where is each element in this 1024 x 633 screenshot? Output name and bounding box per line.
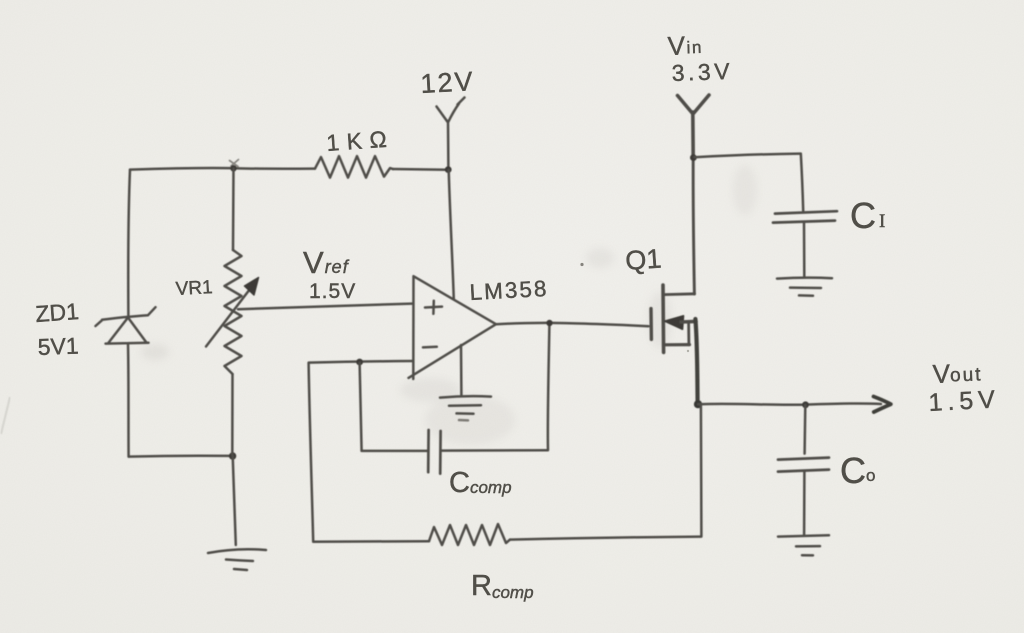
wire: VR1 top lead — [232, 169, 235, 251]
capacitor Co — [778, 458, 829, 472]
wire: top rail from left corner to resistor R1 — [130, 168, 315, 170]
wire: VR1 node down to ground — [233, 456, 236, 545]
op-amp U1 (LM358) — [409, 276, 497, 379]
wire: Rcomp left segment — [313, 540, 429, 543]
wire: op-amp output to MOSFET gate — [496, 323, 649, 326]
wire: Co top lead — [803, 405, 806, 454]
junction dot: feedback node — [356, 359, 363, 366]
ground: below VR1 — [208, 549, 266, 570]
zener diode ZD1 — [96, 307, 156, 343]
power symbol Vin — [678, 95, 710, 157]
wire: Co bottom lead — [803, 472, 806, 535]
op-amp - input symbol — [423, 345, 437, 348]
arrowhead: Vout — [874, 397, 891, 413]
junction dot: Vout node — [694, 400, 702, 408]
wiper arrow of VR1 — [206, 289, 250, 347]
wire: CI top lead — [801, 154, 803, 211]
pencil smudge at left edge — [1, 397, 10, 434]
junction dot: op-amp output node — [546, 320, 552, 326]
op-amp + input symbol — [425, 301, 442, 314]
ground: below CI — [777, 278, 832, 296]
wire: VR1 bottom lead — [231, 374, 234, 455]
wire: left vertical from top rail to zener cathode — [128, 170, 130, 318]
wire: 12V node down to op-amp V+ — [449, 170, 454, 300]
wire: feedback left vertical — [309, 363, 314, 542]
pencil tick marks at top-rail junction — [230, 160, 239, 167]
wire: drain up to Vin node — [693, 158, 694, 294]
mosfet Q1: source stub — [664, 343, 690, 346]
junction dot: top rail / VR1 top — [230, 165, 236, 171]
dust speck — [687, 350, 689, 352]
potentiometer VR1 zigzag — [225, 250, 242, 374]
wire: zener anode down to bottom-left corner — [127, 344, 130, 457]
wire: bottom rail to VR1 bottom node — [129, 454, 231, 457]
mosfet Q1: arrow-to-source link — [687, 322, 690, 345]
wire: Vin node to CI top — [694, 154, 800, 158]
wire: Ccomp left lead — [362, 450, 427, 453]
ground: op-amp — [440, 396, 491, 414]
power symbol 12V — [437, 98, 465, 170]
junction dot: VR1 bottom node — [229, 452, 236, 459]
mosfet Q1: drain stub — [664, 292, 695, 296]
resistor Rcomp — [429, 524, 510, 545]
junction dot: Co tap — [802, 401, 809, 408]
junction dot: Vin node — [690, 154, 697, 161]
dust speck — [580, 263, 583, 266]
wire: Ccomp right lead — [441, 449, 547, 452]
wire: CI bottom lead — [803, 223, 806, 277]
wire: resistor to 12V node — [393, 168, 447, 171]
capacitor CI — [773, 211, 837, 222]
wire: feedback node down to Ccomp — [360, 363, 362, 451]
wire: Vout node down right side of comp loop — [700, 405, 703, 536]
wire: source heavy vertical down to Vout node — [695, 319, 697, 403]
wire: Vout line — [698, 403, 881, 404]
capacitor Ccomp — [428, 430, 440, 474]
mosfet Q1: gate bar — [649, 309, 653, 340]
wire: feedback into op-amp - input — [309, 361, 413, 363]
wire: Vref from wiper to op-amp + input — [238, 304, 412, 310]
ground stub: op-amp — [460, 345, 463, 395]
resistor R1 (1 kOhm) — [315, 156, 393, 178]
ground: below Co — [778, 535, 829, 555]
wire: Rcomp right segment — [510, 537, 701, 540]
wire: Ccomp up to op-amp output node — [548, 325, 550, 450]
mosfet Q1: body arrow — [665, 316, 684, 330]
mosfet Q1: channel bar — [661, 285, 665, 352]
junction dot: 12V node — [445, 166, 452, 173]
paper grain — [0, 0, 1, 1]
